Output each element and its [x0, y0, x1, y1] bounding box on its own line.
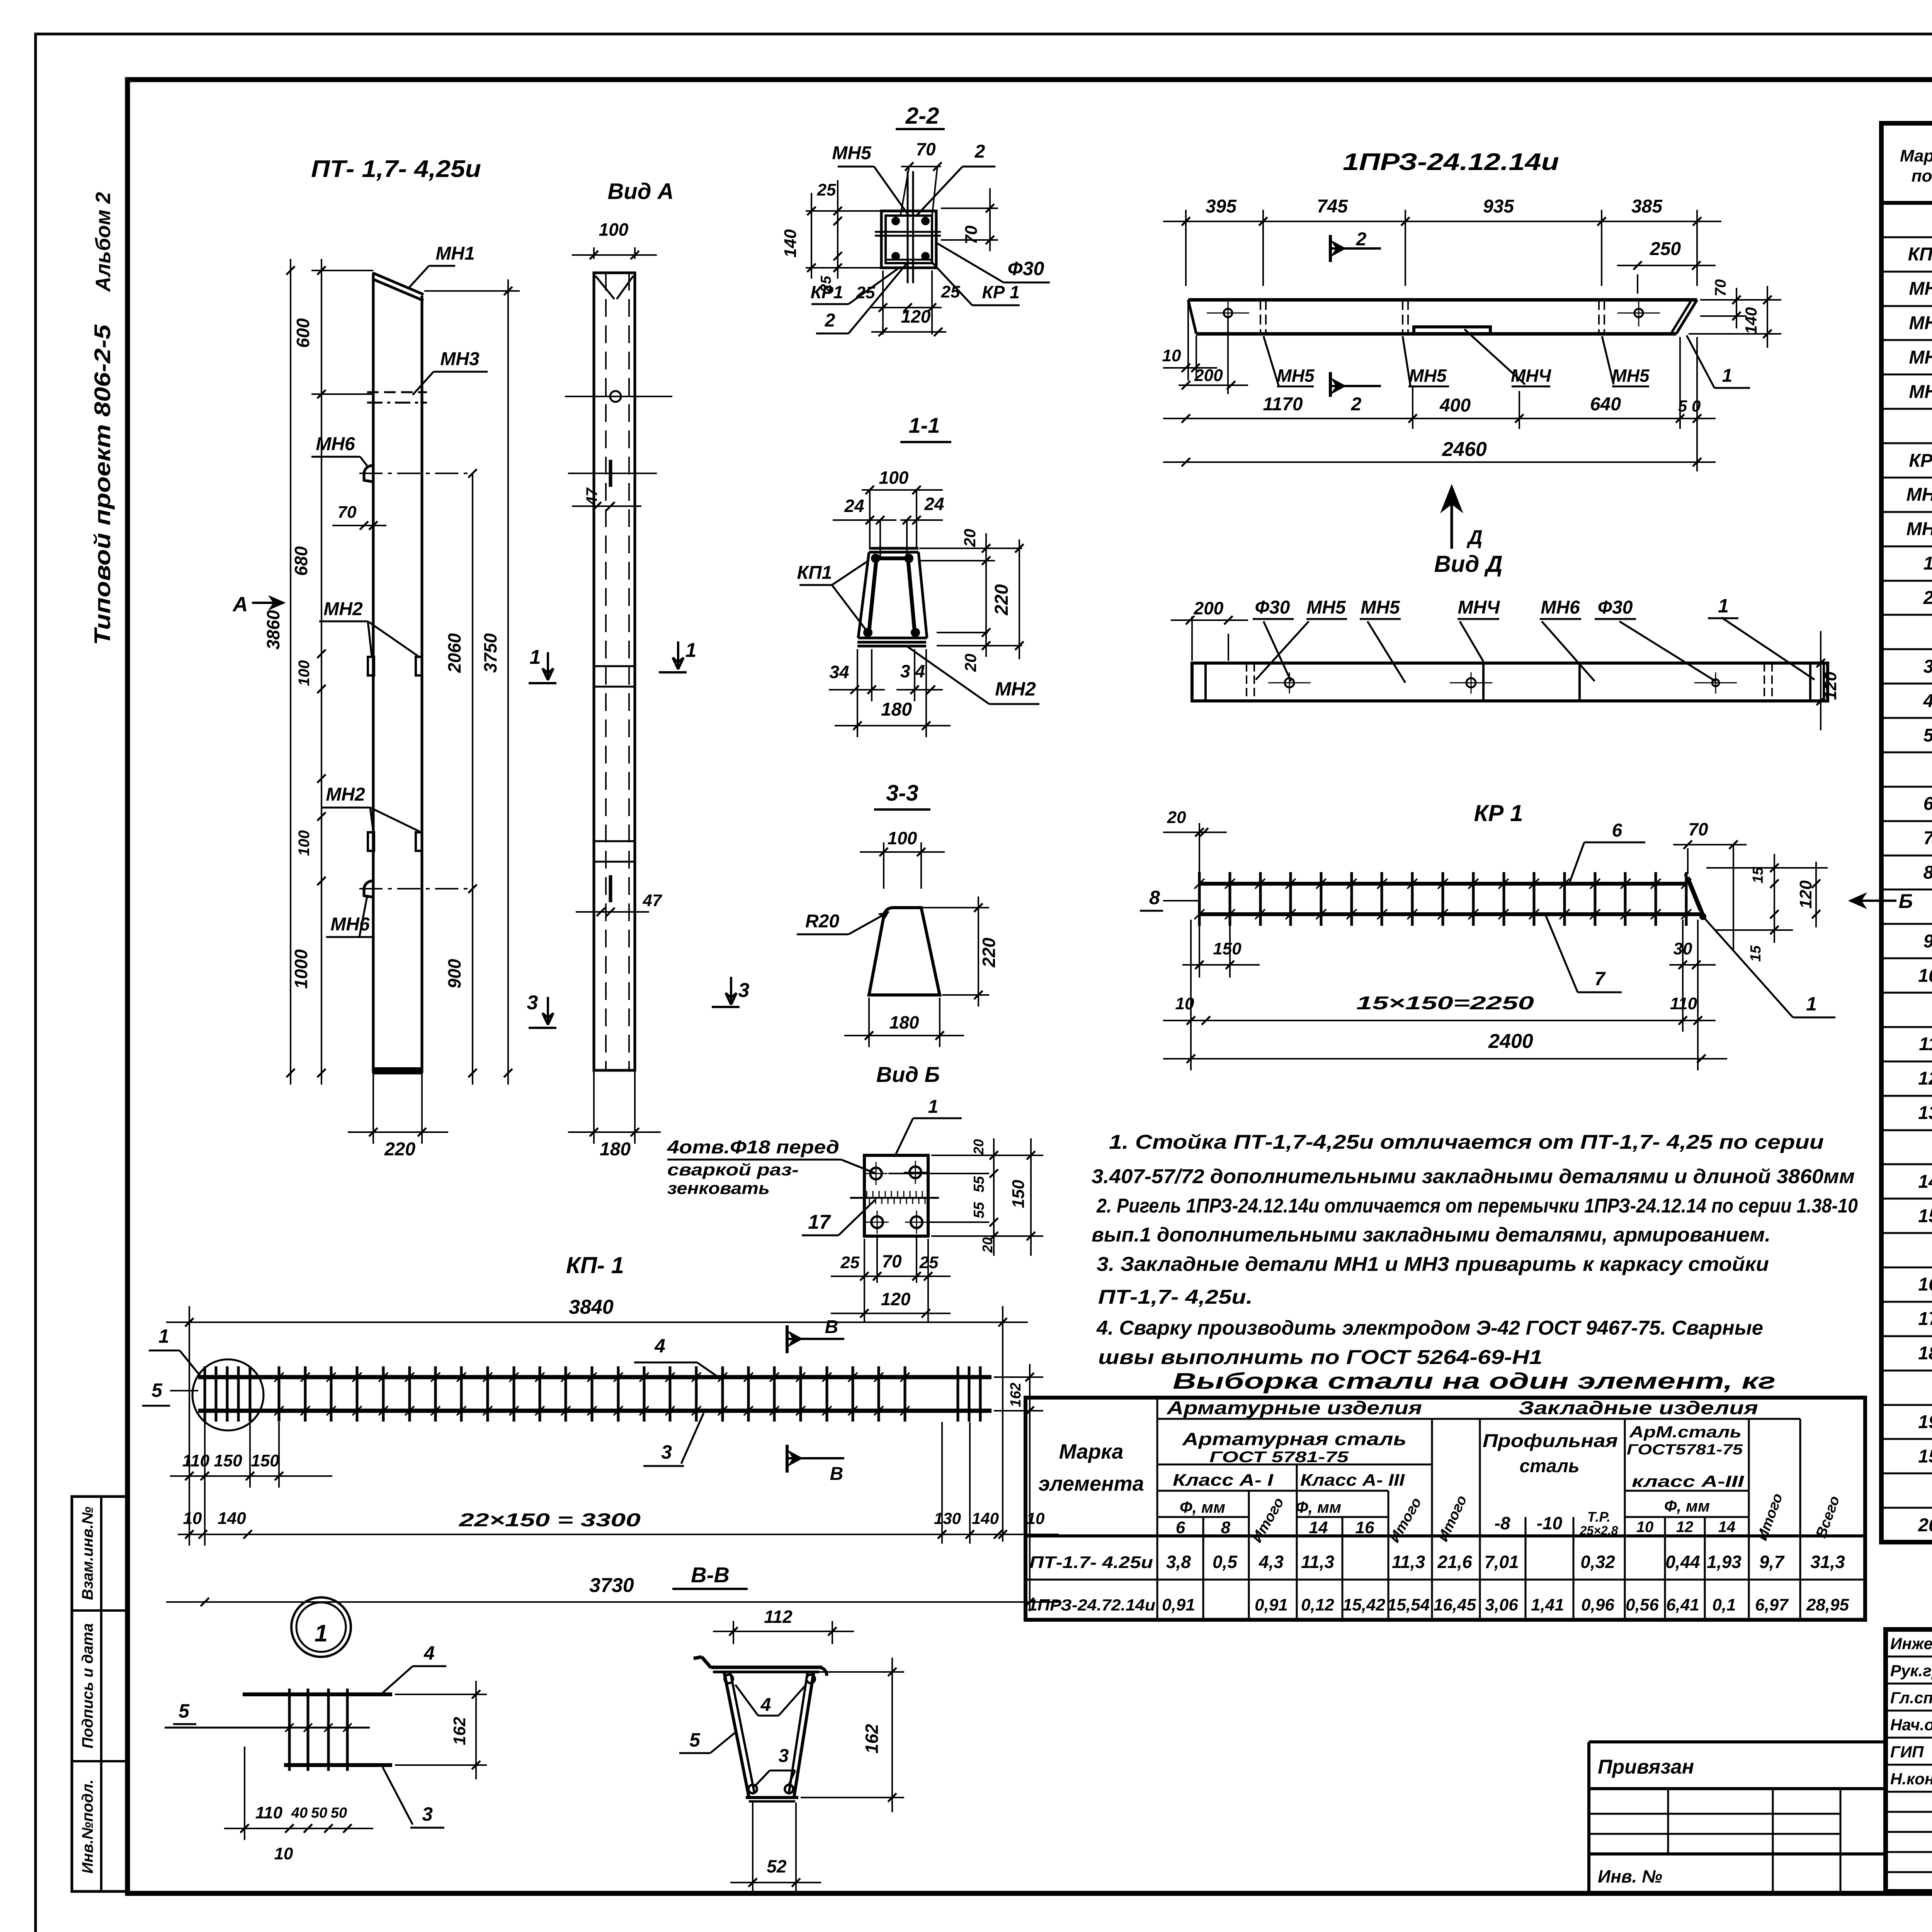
svg-text:140: 140 — [781, 229, 800, 258]
svg-text:15: 15 — [1750, 867, 1766, 883]
svg-text:КР 1: КР 1 — [1909, 451, 1932, 471]
svg-text:7: 7 — [1923, 828, 1932, 849]
KR1 dims 150/30 — [1199, 917, 1200, 978]
svg-text:сваркой раз-: сваркой раз- — [667, 1160, 799, 1179]
svg-text:900: 900 — [444, 959, 464, 988]
2-2 dim 70 right — [941, 207, 998, 209]
svg-text:9: 9 — [1923, 931, 1932, 952]
svg-text:Выборка стали на один элем: Выборка стали на один элемент, кг — [1173, 1369, 1776, 1394]
vid A section break lines — [594, 665, 635, 667]
svg-text:Инв.№подл.: Инв.№подл. — [79, 1779, 96, 1874]
svg-text:47: 47 — [583, 487, 600, 505]
MN6 top lug — [364, 466, 373, 482]
svg-text:16: 16 — [1918, 1274, 1932, 1295]
1-1 right dims 20/220/20 — [919, 548, 1022, 549]
svg-text:120: 120 — [1821, 672, 1840, 700]
svg-text:22×150 = 3300: 22×150 = 3300 — [459, 1510, 641, 1531]
svg-text:4. Сварку производить электр: 4. Сварку производить электродом Э-42 ГО… — [1096, 1317, 1763, 1339]
privyazan block — [1589, 1740, 1886, 1743]
svg-text:50: 50 — [311, 1805, 327, 1821]
left margin stamp boxes — [72, 1497, 129, 1891]
svg-text:180: 180 — [600, 1139, 631, 1160]
svg-text:100: 100 — [888, 828, 917, 848]
title block — [1886, 1629, 1932, 1891]
svg-text:Артатурная сталь: Артатурная сталь — [1182, 1429, 1406, 1449]
svg-text:1: 1 — [158, 1325, 169, 1347]
section mark 1 (right) — [673, 641, 684, 669]
svg-text:55: 55 — [971, 1176, 987, 1192]
svg-text:9,7: 9,7 — [1759, 1552, 1785, 1572]
svg-text:17: 17 — [808, 1211, 831, 1233]
KP-1 dim 3730 — [166, 1601, 1059, 1603]
svg-text:В-В: В-В — [691, 1563, 730, 1587]
svg-text:200: 200 — [1194, 598, 1224, 618]
svg-text:Взам.инв.№: Взам.инв.№ — [79, 1507, 96, 1600]
svg-text:7,01: 7,01 — [1484, 1552, 1519, 1572]
svg-text:0,91: 0,91 — [1255, 1595, 1288, 1614]
svg-text:0,5: 0,5 — [1213, 1552, 1238, 1572]
svg-text:Инв. №: Инв. № — [1598, 1866, 1662, 1886]
svg-text:ПТ-1.7- 4.25и: ПТ-1.7- 4.25и — [1029, 1553, 1153, 1572]
svg-text:В: В — [825, 1317, 838, 1337]
MN2 tabs upper — [368, 657, 374, 675]
svg-text:15: 15 — [1918, 1446, 1932, 1467]
svg-text:АрМ.сталь: АрМ.сталь — [1629, 1423, 1742, 1441]
svg-text:2: 2 — [1356, 229, 1367, 250]
svg-text:31,3: 31,3 — [1810, 1552, 1845, 1572]
svg-text:1,41: 1,41 — [1531, 1595, 1564, 1614]
svg-text:1: 1 — [685, 639, 697, 662]
svg-text:вып.1 дополнительными заклад: вып.1 дополнительными закладными деталям… — [1092, 1224, 1770, 1246]
KR1 chords — [1199, 882, 1686, 886]
svg-text:20: 20 — [971, 1139, 986, 1155]
svg-text:0,12: 0,12 — [1301, 1595, 1334, 1614]
svg-text:0,32: 0,32 — [1580, 1552, 1615, 1572]
PT dim 220 — [372, 1073, 374, 1144]
svg-text:0,1: 0,1 — [1712, 1595, 1736, 1614]
svg-text:150: 150 — [214, 1451, 242, 1470]
1-1 section body — [869, 547, 918, 550]
svg-text:1ПРЗ-24.12.14и: 1ПРЗ-24.12.14и — [1343, 149, 1559, 175]
svg-text:В: В — [830, 1464, 844, 1484]
3-3 dim 180 — [868, 998, 870, 1047]
svg-text:2: 2 — [825, 310, 835, 331]
svg-text:25×2,8: 25×2,8 — [1580, 1524, 1618, 1537]
direction arrow D — [1443, 488, 1460, 549]
svg-text:180: 180 — [889, 1012, 919, 1032]
svg-text:3: 3 — [738, 979, 750, 1002]
KP-1 section mark V bottom — [786, 1445, 789, 1473]
svg-text:3: 3 — [661, 1441, 672, 1463]
svg-text:Н.контр.: Н.контр. — [1890, 1770, 1932, 1788]
svg-text:5: 5 — [151, 1379, 163, 1401]
KP-1 chords — [198, 1375, 992, 1379]
svg-text:МН4: МН4 — [1909, 382, 1932, 402]
1PRZ right dims 70/140 — [1700, 299, 1781, 301]
svg-text:сталь: сталь — [1519, 1456, 1579, 1476]
vid A weld mark 47 bottom — [609, 875, 612, 902]
svg-text:220: 220 — [979, 937, 999, 968]
svg-text:112: 112 — [764, 1607, 793, 1627]
svg-text:6,97: 6,97 — [1755, 1595, 1789, 1614]
svg-text:110: 110 — [1670, 994, 1697, 1013]
svg-text:24: 24 — [924, 494, 944, 514]
svg-text:Закладные изделия: Закладные изделия — [1519, 1398, 1758, 1418]
svg-text:140: 140 — [218, 1509, 246, 1528]
svg-text:МН5: МН5 — [1277, 366, 1315, 386]
svg-text:180: 180 — [881, 699, 912, 720]
svg-text:Класс А- I: Класс А- I — [1173, 1471, 1274, 1490]
svg-text:Марка: Марка — [1059, 1440, 1124, 1463]
svg-text:130: 130 — [934, 1509, 961, 1527]
svg-text:6,41: 6,41 — [1666, 1595, 1699, 1614]
svg-text:МН3: МН3 — [1909, 347, 1932, 368]
svg-text:10: 10 — [1918, 966, 1932, 986]
vid A dim 100 — [593, 247, 595, 259]
svg-text:МН5: МН5 — [1361, 597, 1400, 618]
PT dim 70 — [332, 525, 386, 526]
svg-text:20: 20 — [961, 529, 979, 548]
svg-text:ПТ- 1,7- 4,25и: ПТ- 1,7- 4,25и — [311, 156, 481, 182]
svg-text:120: 120 — [881, 1289, 911, 1309]
svg-text:120: 120 — [1796, 880, 1815, 909]
svg-text:МН 6: МН 6 — [1906, 519, 1932, 539]
svg-text:КП1: КП1 — [797, 563, 832, 583]
V-V dim 112 — [733, 1621, 734, 1644]
svg-text:Гл.спец.: Гл.спец. — [1890, 1689, 1932, 1707]
vyborka steel table — [1026, 1398, 1865, 1620]
svg-text:25: 25 — [941, 282, 960, 301]
KR1 rungs — [1198, 872, 1201, 926]
detail 1 bottom dims 110/40/50/50/10 — [244, 1747, 245, 1840]
svg-text:400: 400 — [1439, 395, 1471, 416]
svg-text:745: 745 — [1317, 196, 1348, 217]
svg-text:12: 12 — [1918, 1068, 1932, 1089]
svg-text:20: 20 — [1918, 1515, 1932, 1536]
svg-text:15,54: 15,54 — [1387, 1595, 1430, 1614]
svg-text:0,96: 0,96 — [1581, 1595, 1614, 1614]
svg-text:3,8: 3,8 — [1166, 1552, 1191, 1572]
svg-text:1: 1 — [928, 1097, 939, 1117]
svg-text:МН2: МН2 — [995, 678, 1036, 700]
PT dim 3750 — [507, 279, 509, 1085]
KR1 dim 20 left — [1199, 823, 1200, 884]
1PRZ dim 2460 — [1163, 461, 1716, 463]
svg-text:200: 200 — [1194, 366, 1223, 385]
KP-1 dim 162 — [994, 1376, 1043, 1378]
vid A dim 180 — [593, 1070, 595, 1144]
svg-text:1-1: 1-1 — [909, 413, 940, 437]
svg-text:385: 385 — [1631, 196, 1663, 217]
1PRZ section mark K2 top — [1329, 235, 1332, 262]
svg-text:Ф30: Ф30 — [1255, 597, 1290, 618]
section 2-2 inner bars — [907, 171, 909, 283]
KP-1 right cluster rungs — [957, 1366, 959, 1422]
svg-text:4: 4 — [654, 1335, 665, 1357]
svg-text:Ф, мм: Ф, мм — [1664, 1497, 1710, 1515]
svg-text:-8: -8 — [1495, 1513, 1510, 1533]
svg-text:1170: 1170 — [1263, 394, 1303, 415]
svg-text:1,93: 1,93 — [1707, 1552, 1742, 1572]
svg-text:70: 70 — [962, 225, 981, 244]
1PRZ dim 250 — [1637, 274, 1638, 294]
svg-text:3.407-57/72 дополнительными з: 3.407-57/72 дополнительными закладными д… — [1092, 1165, 1855, 1188]
svg-text:100: 100 — [296, 830, 313, 856]
svg-text:ГИП: ГИП — [1890, 1743, 1924, 1761]
svg-text:30: 30 — [1673, 939, 1692, 958]
MN3 embedded plate dashes — [367, 391, 427, 393]
svg-text:20: 20 — [1167, 808, 1186, 827]
svg-text:16: 16 — [1355, 1518, 1374, 1537]
svg-text:220: 220 — [384, 1139, 415, 1160]
svg-text:1: 1 — [315, 1620, 328, 1647]
svg-text:Арматурные изделия: Арматурные изделия — [1167, 1398, 1422, 1418]
svg-text:2-2: 2-2 — [905, 103, 939, 129]
section 2-2 square — [881, 211, 936, 268]
svg-text:50: 50 — [331, 1805, 347, 1821]
svg-text:10: 10 — [1636, 1519, 1654, 1536]
svg-text:R20: R20 — [805, 911, 839, 932]
svg-text:70: 70 — [916, 139, 936, 159]
svg-text:2: 2 — [1923, 588, 1932, 608]
svg-text:47: 47 — [643, 891, 663, 910]
svg-text:3: 3 — [422, 1803, 433, 1825]
svg-text:600: 600 — [293, 318, 313, 348]
svg-text:0,44: 0,44 — [1665, 1552, 1700, 1572]
svg-text:Марка,: Марка, — [1900, 146, 1932, 165]
svg-text:3: 3 — [527, 992, 538, 1014]
svg-text:150: 150 — [1213, 939, 1242, 958]
svg-text:4: 4 — [760, 1695, 771, 1715]
svg-text:15: 15 — [1918, 1206, 1932, 1226]
KP-1 detail circle — [192, 1359, 264, 1430]
svg-text:20: 20 — [980, 1237, 995, 1253]
svg-text:3. Закладные детали МН1 и: 3. Закладные детали МН1 и МН3 приварить … — [1097, 1253, 1769, 1276]
KP-1 section mark V top — [786, 1325, 789, 1353]
svg-text:МН2: МН2 — [323, 599, 363, 619]
svg-text:395: 395 — [1206, 196, 1237, 217]
svg-text:21,6: 21,6 — [1437, 1552, 1472, 1572]
svg-text:швы выполнить по ГОСТ 526: швы выполнить по ГОСТ 5264-69-Н1 — [1098, 1346, 1543, 1369]
svg-text:Ф, мм: Ф, мм — [1296, 1498, 1341, 1516]
svg-text:11,3: 11,3 — [1392, 1552, 1425, 1572]
svg-text:3,06: 3,06 — [1485, 1595, 1518, 1614]
svg-text:150: 150 — [1009, 1180, 1028, 1208]
svg-text:Подпись и дата: Подпись и дата — [79, 1623, 96, 1748]
svg-text:25: 25 — [856, 283, 875, 302]
V-V top bar — [711, 1666, 822, 1669]
svg-text:15,42: 15,42 — [1343, 1595, 1386, 1614]
svg-text:20: 20 — [961, 654, 980, 672]
V-V bottom bar — [746, 1796, 798, 1799]
svg-text:МН3: МН3 — [440, 349, 480, 369]
svg-text:14: 14 — [1718, 1519, 1736, 1536]
svg-text:24: 24 — [844, 496, 864, 516]
svg-text:МН2: МН2 — [1909, 313, 1932, 333]
svg-text:7: 7 — [1594, 968, 1606, 990]
svg-text:КП-1: КП-1 — [1908, 244, 1932, 265]
KP-1 bottom dims row2 10/140 ... 130/140/10 — [178, 1534, 348, 1535]
detail 1 fragment — [243, 1692, 392, 1696]
svg-text:11,3: 11,3 — [1301, 1552, 1335, 1572]
svg-text:100: 100 — [599, 219, 629, 240]
svg-text:10: 10 — [1162, 346, 1181, 365]
V-V bucket walls — [724, 1672, 749, 1797]
svg-text:220: 220 — [992, 584, 1012, 616]
svg-text:0,56: 0,56 — [1626, 1595, 1659, 1614]
svg-text:15×150=2250: 15×150=2250 — [1356, 993, 1534, 1014]
svg-text:70: 70 — [1688, 819, 1708, 839]
svg-text:КР1: КР1 — [811, 282, 844, 302]
KR1 dims 10 / 15x150=2250 / 110 — [1190, 920, 1192, 1070]
svg-text:4отв.Ф18 перед: 4отв.Ф18 перед — [667, 1137, 839, 1158]
1PRZ dim 200 — [1227, 317, 1229, 394]
KP-1 bottom dims row1 110/150/150 — [204, 1422, 206, 1546]
svg-text:8: 8 — [1149, 887, 1160, 908]
svg-text:1: 1 — [1923, 553, 1932, 574]
svg-text:3860: 3860 — [263, 610, 283, 650]
svg-text:0,91: 0,91 — [1162, 1595, 1195, 1614]
svg-text:4,3: 4,3 — [1259, 1552, 1284, 1572]
svg-text:МН6: МН6 — [316, 434, 355, 454]
svg-text:120: 120 — [901, 306, 931, 327]
section mark 3 (right) — [726, 977, 736, 1005]
svg-text:3840: 3840 — [569, 1296, 614, 1318]
PT dims 600/680/100/1000 — [321, 259, 322, 1085]
svg-text:250: 250 — [1650, 239, 1681, 259]
svg-text:3 4: 3 4 — [900, 661, 925, 681]
svg-text:14: 14 — [1309, 1518, 1328, 1537]
svg-text:5: 5 — [689, 1729, 701, 1751]
svg-text:класс А-III: класс А-III — [1632, 1472, 1745, 1490]
svg-text:-10: -10 — [1537, 1513, 1563, 1533]
svg-text:1ПРЗ-24.72.14и: 1ПРЗ-24.72.14и — [1028, 1596, 1155, 1614]
svg-text:Рук.гр.: Рук.гр. — [1890, 1662, 1932, 1680]
svg-text:19: 19 — [1918, 1412, 1932, 1432]
PT dims 2060/900 — [472, 473, 473, 1085]
3-3 dim 100 — [883, 842, 884, 889]
3-3 dim 220 — [914, 907, 989, 908]
KR1 dim 70 — [1673, 844, 1747, 845]
svg-text:МНЧ: МНЧ — [1458, 597, 1500, 618]
svg-text:110: 110 — [182, 1451, 210, 1470]
svg-text:16,45: 16,45 — [1434, 1595, 1476, 1614]
V-V dim 52 — [752, 1803, 753, 1893]
svg-text:поз.: поз. — [1912, 167, 1932, 185]
svg-text:МН1: МН1 — [435, 243, 474, 264]
svg-text:МН5: МН5 — [1612, 366, 1650, 386]
svg-text:34: 34 — [829, 662, 849, 682]
svg-text:5: 5 — [1923, 725, 1932, 746]
vid B right dims 20/55/55/20 150 — [931, 1155, 1043, 1156]
1PRZ dim 10 left — [1187, 301, 1189, 381]
svg-text:3730: 3730 — [589, 1574, 634, 1597]
svg-text:МН2: МН2 — [326, 784, 365, 805]
svg-text:70: 70 — [338, 503, 357, 522]
svg-text:8: 8 — [1221, 1518, 1231, 1537]
svg-text:МН6: МН6 — [1541, 597, 1580, 618]
svg-text:ГОСТ 5781-75: ГОСТ 5781-75 — [1209, 1449, 1349, 1466]
svg-text:110: 110 — [255, 1803, 283, 1822]
vid A hole circle — [610, 391, 621, 402]
svg-text:1: 1 — [1722, 366, 1733, 386]
1PRZ section mark K2 bottom — [1329, 372, 1332, 397]
svg-text:17: 17 — [1918, 1309, 1932, 1329]
svg-text:8: 8 — [1923, 862, 1932, 883]
KR1 right dims 15/120/15 — [1706, 867, 1828, 869]
1PRZ dims 1170/400/640/50 — [1412, 386, 1413, 429]
svg-text:52: 52 — [767, 1856, 787, 1876]
svg-text:МН5: МН5 — [1306, 597, 1346, 618]
svg-text:МН5: МН5 — [832, 143, 872, 163]
1PRZ beam outline — [1188, 298, 1697, 302]
svg-text:Профильная: Профильная — [1483, 1431, 1618, 1451]
svg-text:4: 4 — [1923, 691, 1932, 711]
svg-text:1000: 1000 — [291, 949, 311, 989]
vid D dividers — [1482, 663, 1485, 701]
1PRZ MN4 bottom plate — [1414, 327, 1490, 334]
svg-text:Привязан: Привязан — [1598, 1756, 1694, 1778]
svg-text:6: 6 — [1612, 820, 1622, 841]
svg-text:Вид Д: Вид Д — [1434, 551, 1502, 577]
svg-text:640: 640 — [1590, 394, 1621, 415]
svg-text:Инжен.: Инжен. — [1890, 1634, 1932, 1653]
PT column body — [372, 274, 375, 1073]
svg-text:Типовой проект 806-2-5: Типовой проект 806-2-5 — [90, 324, 115, 645]
svg-text:МН1: МН1 — [1909, 279, 1932, 299]
3-3 body — [869, 908, 940, 995]
svg-text:ПТ-1,7- 4,25и.: ПТ-1,7- 4,25и. — [1098, 1286, 1253, 1308]
1PRZ top dims 395/745/935/385 — [1185, 210, 1187, 286]
svg-text:150: 150 — [251, 1451, 279, 1470]
svg-text:Ф, мм: Ф, мм — [1180, 1498, 1225, 1516]
svg-text:935: 935 — [1483, 196, 1514, 217]
svg-text:680: 680 — [291, 546, 311, 576]
svg-text:1: 1 — [1806, 993, 1817, 1015]
svg-text:55: 55 — [971, 1202, 987, 1218]
MN1 top plate — [372, 273, 423, 294]
svg-text:3: 3 — [1923, 656, 1932, 677]
1-1 rebar dots and bars — [871, 554, 880, 563]
MN2 tabs lower — [368, 832, 374, 851]
svg-text:2060: 2060 — [444, 633, 464, 673]
svg-text:70: 70 — [1712, 279, 1729, 297]
1PRZ holes — [1224, 309, 1232, 317]
KR1 dim 2400 — [1163, 1058, 1727, 1060]
svg-text:162: 162 — [1008, 1383, 1024, 1407]
svg-text:2400: 2400 — [1488, 1030, 1533, 1053]
svg-text:6: 6 — [1923, 794, 1932, 814]
svg-text:элемента: элемента — [1038, 1472, 1144, 1495]
svg-text:1. Стойка ПТ-1,7-4,25и от: 1. Стойка ПТ-1,7-4,25и отличается от ПТ-… — [1109, 1131, 1824, 1153]
svg-text:100: 100 — [296, 660, 313, 686]
V-V corner dots — [724, 1675, 733, 1683]
V-V dim 162 — [816, 1671, 904, 1673]
svg-text:1: 1 — [1718, 595, 1729, 617]
svg-text:3-3: 3-3 — [886, 781, 918, 806]
vid D bar — [1192, 663, 1828, 701]
svg-text:5: 5 — [179, 1700, 190, 1722]
svg-text:КП- 1: КП- 1 — [566, 1252, 624, 1278]
svg-text:А: А — [232, 593, 248, 616]
svg-text:Альбом 2: Альбом 2 — [92, 192, 115, 293]
svg-text:ГОСТ5781-75: ГОСТ5781-75 — [1627, 1442, 1743, 1458]
svg-text:Вид Б: Вид Б — [876, 1062, 940, 1087]
specification table grid — [1881, 123, 1932, 1542]
svg-text:15: 15 — [1748, 945, 1764, 962]
svg-text:2: 2 — [1351, 394, 1362, 415]
svg-text:2: 2 — [975, 141, 985, 162]
